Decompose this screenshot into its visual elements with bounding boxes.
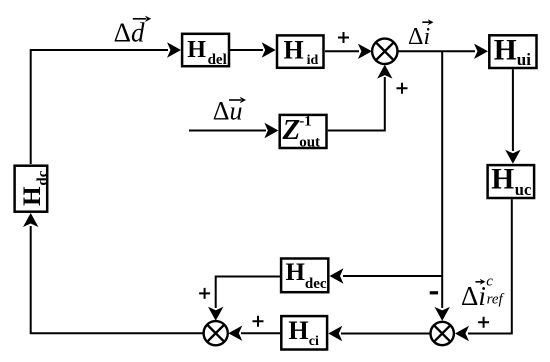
svg-text:Δu: Δu [213,97,243,126]
svg-text:del: del [208,52,227,68]
svg-text:ui: ui [517,50,531,69]
svg-text:-1: -1 [299,114,312,130]
svg-text:dc: dc [35,170,51,185]
svg-text:H: H [284,35,304,64]
svg-text:Z: Z [282,114,301,146]
svg-text:Δd: Δd [114,18,145,48]
svg-text:H: H [286,259,306,286]
svg-text:ref: ref [487,292,505,308]
svg-text:id: id [307,53,319,68]
svg-text:H: H [19,186,46,206]
svg-text:Δi: Δi [408,24,430,50]
svg-text:Δi: Δi [461,281,486,311]
svg-text:c: c [486,274,493,290]
svg-text:H: H [494,35,517,67]
svg-text:ci: ci [309,334,319,349]
svg-text:dec: dec [305,276,327,292]
svg-text:out: out [299,134,320,150]
svg-text:H: H [491,164,514,196]
svg-text:uc: uc [515,180,532,199]
svg-text:H: H [187,37,206,63]
svg-text:H: H [288,316,308,345]
